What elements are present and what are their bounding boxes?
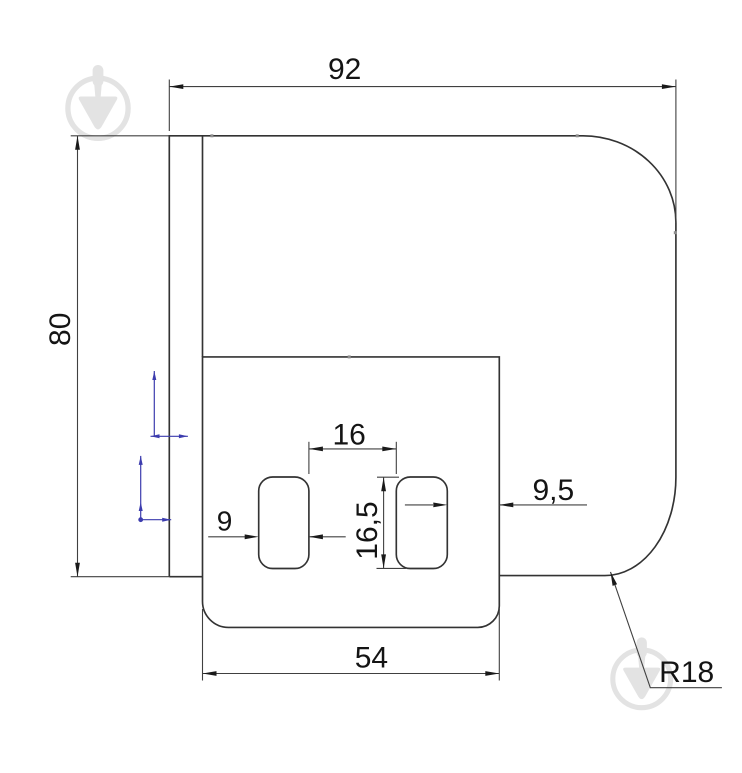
watermark logo bottom-right <box>613 637 671 707</box>
dimension 9,5 arrowheads <box>433 503 513 508</box>
blue mark 1 <box>151 371 188 436</box>
grip dots <box>210 134 676 358</box>
dimension 16,5 <box>377 477 407 568</box>
dimension 80 <box>71 136 170 577</box>
watermark logo top-left <box>68 65 128 138</box>
outer bottom edge left segment <box>169 576 202 578</box>
dimension 16 arrowheads <box>309 447 396 452</box>
slot right <box>396 477 447 569</box>
dimension 92 <box>169 80 676 224</box>
dimension 9 arrowheads <box>245 534 323 539</box>
R18 leader <box>611 572 722 688</box>
svg-text:16,5: 16,5 <box>351 501 384 559</box>
part outline: outer plate <box>169 136 676 628</box>
dimension 54 arrowheads <box>203 671 500 676</box>
blue mark 1 arrowheads <box>151 371 188 438</box>
svg-text:9,5: 9,5 <box>532 474 574 507</box>
inner plate <box>203 357 500 628</box>
dimension 9 <box>208 536 346 538</box>
dimension 54 <box>203 609 500 681</box>
svg-text:9: 9 <box>217 506 233 537</box>
dimension 92 arrowheads <box>169 84 676 89</box>
dimension 80 arrowheads <box>75 136 80 577</box>
R18 leader arrowhead <box>611 572 618 586</box>
svg-text:16: 16 <box>333 418 366 451</box>
svg-text:R18: R18 <box>659 656 714 689</box>
dimension 16 <box>309 442 396 474</box>
dimension 16,5 arrowheads <box>381 477 386 568</box>
blue mark 2 arrowheads and dot <box>138 456 171 522</box>
svg-text:92: 92 <box>328 53 361 86</box>
blue mark 2 <box>139 456 172 520</box>
dimension 9,5 <box>405 504 587 506</box>
svg-text:80: 80 <box>44 313 77 346</box>
slot left <box>259 477 309 569</box>
fold line <box>202 136 204 357</box>
svg-text:54: 54 <box>355 642 388 675</box>
